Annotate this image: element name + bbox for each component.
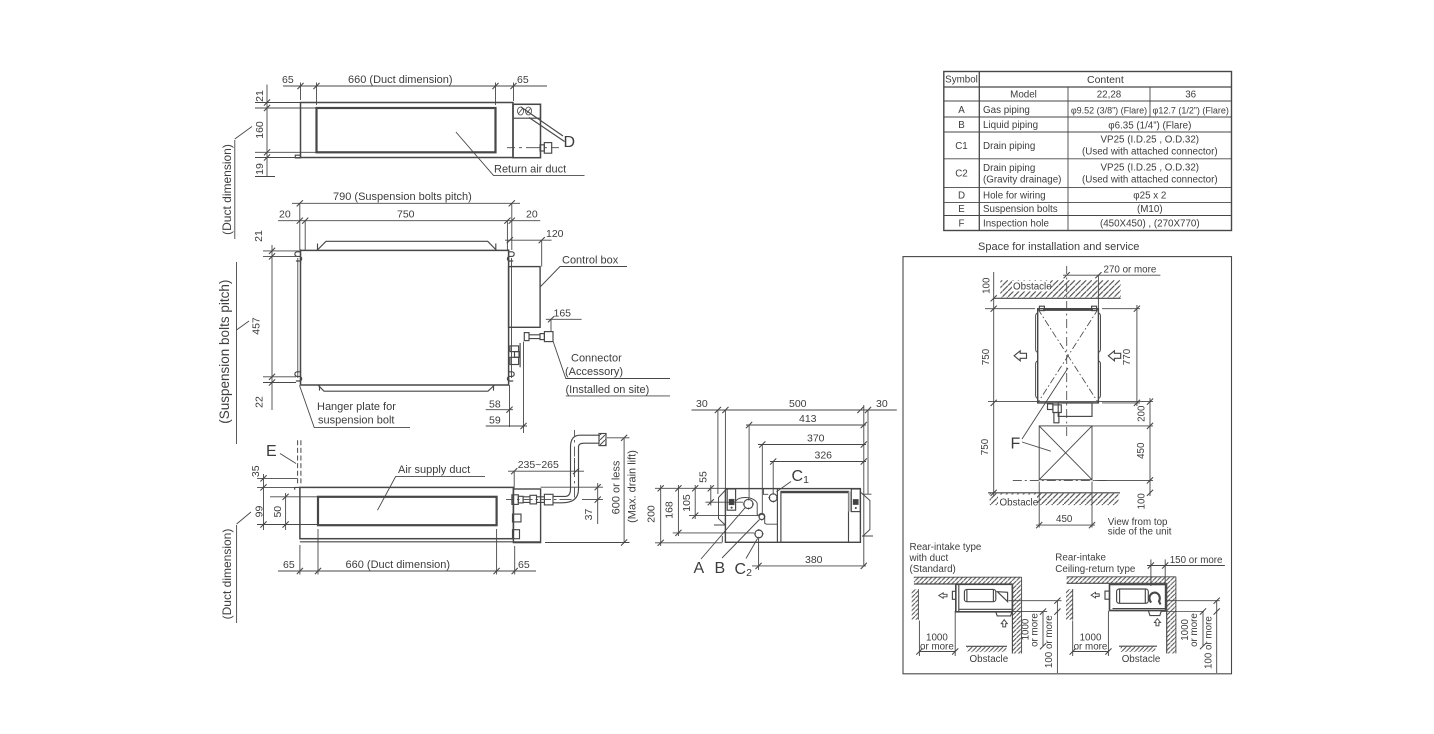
svg-text:65: 65 bbox=[283, 559, 295, 571]
label B with leader bbox=[722, 520, 760, 559]
obstacle band top bbox=[1000, 280, 1120, 297]
svg-text:165: 165 bbox=[554, 308, 572, 320]
svg-text:C1: C1 bbox=[792, 468, 810, 486]
bottom flange bbox=[318, 385, 495, 391]
reference lines bbox=[1008, 600, 1061, 602]
svg-text:59: 59 bbox=[489, 415, 501, 427]
svg-text:370: 370 bbox=[807, 433, 825, 445]
svg-text:or more: or more bbox=[1074, 642, 1108, 653]
label C2 with leader bbox=[746, 539, 758, 559]
svg-text:E: E bbox=[266, 443, 277, 460]
dim 120 control box bbox=[505, 240, 552, 266]
dim 150 or more bbox=[1147, 559, 1225, 586]
svg-text:D: D bbox=[958, 191, 965, 202]
dim 59 bbox=[486, 425, 527, 427]
svg-text:Model: Model bbox=[1010, 90, 1037, 101]
dashed X cross bbox=[1038, 309, 1099, 403]
svg-text:with duct: with duct bbox=[909, 553, 949, 564]
svg-text:(Standard): (Standard) bbox=[910, 564, 956, 575]
svg-text:Drain piping: Drain piping bbox=[983, 141, 1035, 152]
label C1 with leader bbox=[777, 482, 792, 492]
svg-text:50: 50 bbox=[272, 506, 284, 518]
svg-text:326: 326 bbox=[815, 450, 833, 462]
right chain 200/450/100 bbox=[1092, 398, 1153, 496]
hanger bracket left bbox=[727, 489, 735, 510]
svg-text:20: 20 bbox=[526, 209, 538, 221]
unit corner bolts bbox=[1039, 306, 1044, 310]
svg-text:457: 457 bbox=[251, 317, 263, 335]
label A with leader bbox=[701, 508, 745, 559]
pipe hole B bbox=[758, 513, 765, 520]
table frame bbox=[944, 72, 1232, 231]
svg-text:200: 200 bbox=[646, 505, 658, 523]
ceiling return elbow bbox=[1149, 593, 1160, 605]
svg-text:55: 55 bbox=[698, 471, 710, 483]
svg-text:105: 105 bbox=[681, 494, 693, 512]
svg-text:F: F bbox=[1011, 436, 1021, 453]
left chain 100/750/750 bbox=[985, 272, 1035, 496]
left vertical dimension chain 21/160/19 bbox=[255, 85, 317, 177]
column lines bbox=[978, 72, 980, 231]
svg-text:58: 58 bbox=[489, 399, 501, 411]
svg-text:(Installed on site): (Installed on site) bbox=[566, 384, 650, 396]
supply air arrow bbox=[1091, 592, 1099, 598]
drain parts bottom bbox=[1048, 404, 1062, 423]
svg-text:A: A bbox=[958, 105, 965, 116]
stepped pipe plate profile bbox=[736, 489, 778, 525]
bottom dim 65 / 660 / 65 bbox=[278, 529, 536, 575]
svg-text:suspension bolt: suspension bolt bbox=[318, 415, 394, 427]
hole for wiring (D) box with grommets bbox=[513, 104, 541, 118]
svg-text:21: 21 bbox=[253, 230, 265, 242]
drain hose with riser bbox=[553, 434, 606, 503]
svg-text:380: 380 bbox=[805, 554, 823, 566]
dim 450 bottom bbox=[1036, 482, 1095, 528]
right wing bbox=[860, 492, 873, 537]
leader lines to D bbox=[521, 107, 565, 142]
svg-text:VP25 (I.D.25 , O.D.32): VP25 (I.D.25 , O.D.32) bbox=[1101, 135, 1200, 146]
svg-text:500: 500 bbox=[789, 398, 807, 410]
svg-text:(Duct dimension): (Duct dimension) bbox=[220, 529, 234, 620]
svg-text:E: E bbox=[958, 204, 965, 215]
svg-text:Hanger plate for: Hanger plate for bbox=[317, 401, 396, 413]
svg-text:770: 770 bbox=[1122, 348, 1133, 365]
dim 380 bbox=[752, 539, 866, 571]
pipe hole A bbox=[743, 498, 754, 509]
dim 20 / 750 / 20 bbox=[278, 221, 540, 251]
svg-text:750: 750 bbox=[981, 348, 992, 365]
dim 270 or more bbox=[1063, 275, 1160, 309]
svg-text:or more: or more bbox=[920, 642, 954, 653]
svg-text:C2: C2 bbox=[735, 561, 753, 579]
hanger bracket right bbox=[849, 489, 861, 512]
dim 370 bbox=[758, 445, 866, 514]
right pipe compartment bbox=[513, 489, 540, 543]
obstacle floor bbox=[968, 646, 1007, 652]
obstacle band bottom bbox=[990, 494, 1119, 506]
connector piping assembly bbox=[510, 332, 554, 433]
svg-text:660 (Duct dimension): 660 (Duct dimension) bbox=[348, 74, 453, 86]
svg-text:100 or more: 100 or more bbox=[1203, 616, 1214, 669]
pipe fittings A/B on compartment bbox=[512, 494, 553, 538]
suspension bolt (dashed) bbox=[280, 454, 296, 464]
svg-text:φ12.7 (1/2”) (Flare): φ12.7 (1/2”) (Flare) bbox=[1153, 106, 1229, 116]
svg-text:Obstacle: Obstacle bbox=[970, 654, 1009, 665]
svg-text:Symbol: Symbol bbox=[945, 75, 978, 86]
svg-text:φ9.52 (3/8”) (Flare): φ9.52 (3/8”) (Flare) bbox=[1071, 106, 1147, 116]
svg-text:20: 20 bbox=[279, 209, 291, 221]
dim 100 or more vertical bbox=[1216, 601, 1218, 673]
section border bbox=[903, 257, 1232, 674]
svg-text:C1: C1 bbox=[955, 141, 968, 152]
unit small side view bbox=[1105, 585, 1166, 616]
dim 30/500/30 top bbox=[692, 405, 897, 566]
dim 770 right bbox=[1102, 305, 1140, 406]
svg-text:VP25 (I.D.25 , O.D.32): VP25 (I.D.25 , O.D.32) bbox=[1101, 163, 1200, 174]
unit bottom line bbox=[988, 401, 1153, 403]
svg-text:65: 65 bbox=[517, 74, 529, 86]
svg-text:F: F bbox=[959, 219, 965, 230]
svg-text:21: 21 bbox=[254, 90, 266, 102]
air flow arrow right bbox=[1108, 351, 1120, 361]
dim 58 bbox=[486, 409, 513, 411]
obstacle floor bbox=[1121, 646, 1156, 652]
svg-text:Inspection hole: Inspection hole bbox=[983, 219, 1049, 230]
control box bottom bbox=[1058, 403, 1092, 417]
svg-text:(Gravity drainage): (Gravity drainage) bbox=[983, 175, 1061, 186]
svg-text:750: 750 bbox=[980, 438, 991, 455]
dim 100 or more vertical bbox=[1056, 601, 1058, 673]
table text bbox=[945, 74, 1229, 230]
svg-text:Rear-intake type: Rear-intake type bbox=[910, 542, 982, 553]
svg-text:Return air duct: Return air duct bbox=[494, 164, 566, 176]
hanger plate bottom-right bbox=[507, 369, 514, 383]
label Connector (Accessory) (Installed on site) bbox=[553, 341, 670, 396]
svg-text:φ6.35 (1/4”) (Flare): φ6.35 (1/4”) (Flare) bbox=[1108, 121, 1191, 132]
svg-text:or more: or more bbox=[1189, 613, 1200, 647]
svg-text:B: B bbox=[715, 560, 726, 577]
svg-text:Ceiling-return type: Ceiling-return type bbox=[1055, 564, 1136, 575]
svg-text:450: 450 bbox=[1136, 442, 1147, 459]
wall hatch left bbox=[912, 589, 919, 620]
unit body side outline bbox=[300, 487, 514, 538]
air flow arrow left bbox=[1014, 351, 1026, 361]
chain line through inspection bottom bbox=[1013, 479, 1107, 481]
center line and stub connector right side bbox=[507, 143, 559, 154]
svg-text:168: 168 bbox=[664, 501, 676, 519]
dim 37 bbox=[541, 483, 603, 524]
svg-text:(Accessory): (Accessory) bbox=[565, 366, 623, 378]
svg-text:413: 413 bbox=[799, 413, 817, 425]
wall hatch right bbox=[1167, 583, 1176, 653]
inspection hole rect with X bbox=[1039, 426, 1092, 480]
label Control box bbox=[540, 267, 627, 288]
svg-text:160: 160 bbox=[254, 121, 266, 139]
svg-text:Obstacle: Obstacle bbox=[1000, 498, 1039, 509]
svg-text:Rear-intake: Rear-intake bbox=[1055, 553, 1106, 564]
hanger plate top-left bbox=[295, 249, 302, 263]
top dimension 65 / 660 / 65 bbox=[283, 83, 547, 106]
svg-text:200: 200 bbox=[1137, 405, 1148, 422]
left hanger rail bbox=[297, 258, 299, 378]
svg-text:65: 65 bbox=[518, 559, 530, 571]
ceiling hatch bbox=[1067, 577, 1176, 584]
svg-text:100: 100 bbox=[1137, 493, 1148, 510]
svg-text:Obstacle: Obstacle bbox=[1013, 282, 1052, 293]
svg-text:235~265: 235~265 bbox=[518, 459, 559, 471]
svg-text:(Suspension bolts pitch): (Suspension bolts pitch) bbox=[217, 280, 232, 424]
svg-text:(Max. drain lift): (Max. drain lift) bbox=[627, 450, 639, 523]
pipe hole C2 bbox=[754, 529, 764, 539]
svg-text:65: 65 bbox=[282, 74, 294, 86]
svg-text:19: 19 bbox=[254, 163, 266, 175]
svg-text:Obstacle: Obstacle bbox=[1122, 654, 1161, 665]
intake up arrow bbox=[1154, 619, 1160, 626]
unit body plan outline bbox=[301, 250, 509, 385]
label Return air duct with leader bbox=[456, 132, 585, 176]
svg-text:φ25 x 2: φ25 x 2 bbox=[1133, 191, 1166, 202]
svg-text:750: 750 bbox=[397, 209, 415, 221]
svg-text:22,28: 22,28 bbox=[1097, 90, 1122, 101]
label Hanger plate for suspension bolt bbox=[300, 385, 411, 427]
bottom plate bbox=[300, 541, 541, 543]
svg-text:30: 30 bbox=[696, 398, 708, 410]
svg-text:C2: C2 bbox=[955, 169, 968, 180]
right hanger rail bbox=[511, 258, 513, 378]
svg-text:(450X450) , (270X770): (450X450) , (270X770) bbox=[1100, 219, 1200, 230]
dim 790 (Suspension bolts pitch) bbox=[292, 203, 520, 250]
svg-text:270 or more: 270 or more bbox=[1104, 265, 1157, 276]
svg-text:(Used with attached connector): (Used with attached connector) bbox=[1082, 175, 1218, 186]
ceiling hatch bbox=[914, 577, 1022, 584]
svg-text:120: 120 bbox=[546, 228, 564, 240]
left wing bbox=[714, 489, 727, 542]
drain hose center lines bbox=[506, 430, 575, 500]
svg-text:660 (Duct dimension): 660 (Duct dimension) bbox=[346, 559, 451, 571]
svg-text:or more: or more bbox=[1030, 613, 1041, 647]
left vertical chain 35/99/50 bbox=[257, 474, 318, 530]
svg-text:30: 30 bbox=[876, 398, 888, 410]
svg-text:D: D bbox=[564, 134, 576, 151]
svg-text:150 or more: 150 or more bbox=[1170, 555, 1223, 566]
air supply duct opening bbox=[318, 497, 497, 525]
return air duct opening bbox=[317, 108, 496, 152]
dim 1000 or more vertical (wall side) bbox=[1042, 612, 1044, 647]
unit body outline bbox=[295, 103, 540, 158]
control box bbox=[509, 267, 540, 328]
wall hatch right bbox=[1012, 584, 1021, 654]
left chain 55/105/168/200 bbox=[655, 485, 759, 546]
dim 1000 or more floor bbox=[1073, 611, 1109, 656]
svg-text:side of the unit: side of the unit bbox=[1108, 527, 1172, 538]
hanger plate top-right bbox=[507, 249, 514, 263]
svg-text:Connector: Connector bbox=[571, 353, 622, 365]
svg-text:A: A bbox=[694, 560, 705, 577]
svg-text:Control box: Control box bbox=[562, 255, 619, 267]
top view: center line bbox=[1066, 266, 1068, 436]
svg-text:B: B bbox=[958, 120, 965, 131]
svg-text:Suspension bolts: Suspension bolts bbox=[983, 204, 1058, 215]
dim 235~265 bbox=[508, 458, 584, 489]
label Air supply duct bbox=[378, 477, 486, 511]
hanger plate bottom-left bbox=[295, 369, 302, 383]
wall hatch left bbox=[1066, 589, 1073, 620]
intake up arrow bbox=[1001, 620, 1007, 627]
unit side rails bbox=[1036, 313, 1038, 398]
svg-text:(M10): (M10) bbox=[1137, 204, 1163, 215]
svg-text:100: 100 bbox=[982, 277, 993, 294]
dim 326 bbox=[770, 462, 866, 494]
svg-text:600 or less: 600 or less bbox=[611, 460, 623, 514]
svg-text:37: 37 bbox=[583, 509, 595, 521]
dim 1000 or more floor bbox=[919, 611, 955, 656]
svg-text:Liquid piping: Liquid piping bbox=[983, 120, 1038, 131]
fan housing bbox=[777, 489, 848, 543]
row lines bbox=[944, 86, 1232, 88]
reference lines bbox=[1166, 600, 1220, 602]
svg-text:Drain piping: Drain piping bbox=[983, 163, 1035, 174]
left vertical chain 21/457/22 bbox=[263, 245, 300, 410]
svg-text:36: 36 bbox=[1185, 90, 1196, 101]
svg-text:Hole for wiring: Hole for wiring bbox=[983, 191, 1046, 202]
dim 600 or less (Max. drain lift) bbox=[545, 438, 630, 543]
svg-text:22: 22 bbox=[254, 396, 266, 408]
svg-text:35: 35 bbox=[250, 465, 262, 477]
svg-text:790 (Suspension bolts pitch): 790 (Suspension bolts pitch) bbox=[333, 191, 472, 203]
svg-text:Content: Content bbox=[1087, 74, 1124, 86]
unit body end outline bbox=[725, 489, 860, 543]
top flange bbox=[317, 241, 497, 250]
dim 413 bbox=[746, 425, 866, 498]
supply air arrow bbox=[939, 593, 947, 599]
dim 165 connector bbox=[546, 319, 582, 331]
unit small side view bbox=[952, 584, 1012, 616]
svg-text:99: 99 bbox=[254, 506, 266, 518]
svg-text:100 or more: 100 or more bbox=[1044, 615, 1055, 668]
svg-text:450: 450 bbox=[1056, 514, 1073, 525]
svg-text:(Used with attached connector): (Used with attached connector) bbox=[1082, 147, 1218, 158]
unit top view bbox=[1038, 309, 1099, 403]
svg-text:Space for installation and ser: Space for installation and service bbox=[978, 241, 1139, 253]
dim 1000 or more vertical (wall side) bbox=[1202, 612, 1204, 647]
svg-text:Air supply duct: Air supply duct bbox=[398, 464, 470, 476]
pipe hole C1 bbox=[768, 493, 778, 503]
svg-text:(Duct dimension): (Duct dimension) bbox=[220, 144, 234, 235]
svg-text:Gas piping: Gas piping bbox=[983, 105, 1030, 116]
